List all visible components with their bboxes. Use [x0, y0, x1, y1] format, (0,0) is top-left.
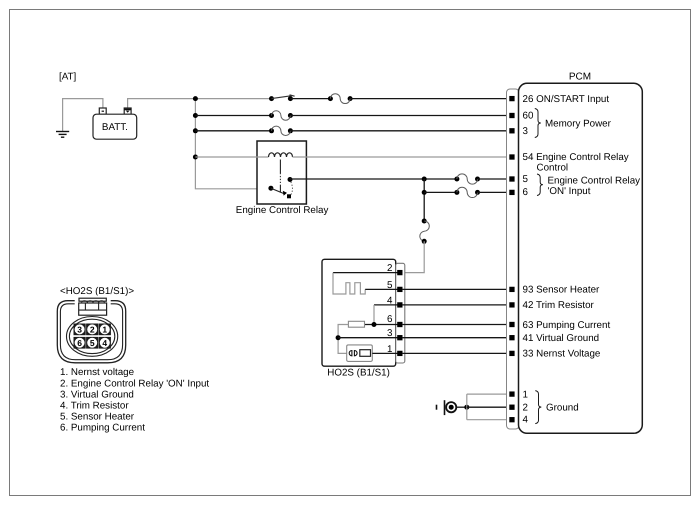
svg-text:93 Sensor Heater: 93 Sensor Heater: [523, 285, 601, 296]
switch (ignition) row1: [269, 95, 295, 101]
wire: chassis ground to node F: [456, 406, 467, 408]
PCM module box: [519, 83, 643, 433]
node (vertical fuse top): [422, 219, 427, 224]
svg-text:Control: Control: [537, 162, 569, 173]
brace Memory Power: [535, 109, 541, 138]
battery BATT.: [93, 108, 137, 139]
svg-text:6. Pumping Current: 6. Pumping Current: [60, 423, 145, 434]
PCM pin labels: [523, 94, 641, 426]
brace Ground: [535, 391, 541, 424]
svg-text:[AT]: [AT]: [59, 72, 77, 83]
fuse vertical (HO2S supply): [420, 221, 429, 244]
node (bus row2): [193, 113, 198, 118]
svg-text:'ON' Input: 'ON' Input: [548, 186, 591, 197]
wire: HO2S pin 6 to PCM pin 63: [402, 324, 510, 326]
relay: Engine Control Relay box: [257, 141, 306, 204]
PCM pin squares: [509, 96, 514, 422]
PCM connector strip: [507, 89, 520, 429]
wire: fuse row6 to PCM pin 6: [478, 191, 511, 193]
svg-text:6: 6: [387, 314, 393, 325]
fuse row2: [269, 111, 293, 120]
wire: resistor left leg down to cell: [338, 325, 348, 354]
svg-text:4: 4: [523, 415, 529, 426]
node A (bus row1): [193, 96, 198, 101]
fuse row6: [454, 187, 480, 197]
wire: node B down to row6 and vertical fuse: [423, 179, 425, 221]
svg-text:4: 4: [387, 295, 393, 306]
svg-text:4. Trim Resistor: 4. Trim Resistor: [60, 400, 129, 411]
wire: heater to HO2S pin 5: [365, 288, 398, 290]
svg-text:4: 4: [102, 338, 107, 348]
svg-text:63 Pumping Current: 63 Pumping Current: [523, 320, 611, 331]
svg-text:26 ON/START Input: 26 ON/START Input: [523, 94, 610, 105]
svg-text:1: 1: [102, 325, 107, 335]
HO2S pin numbers: [387, 263, 393, 355]
connector HO2S (B1/S1) box: [322, 259, 396, 366]
node (bus row4 coil feed): [193, 155, 198, 160]
wire: row2 bus to fuse: [195, 115, 271, 117]
wire: row4 bus into relay coil: [195, 156, 268, 158]
svg-text:Ground: Ground: [546, 402, 579, 413]
label Engine Control Relay: [236, 205, 329, 216]
svg-text:2: 2: [90, 325, 95, 335]
svg-text:BATT.: BATT.: [102, 122, 128, 133]
svg-text:5: 5: [523, 174, 529, 185]
wire: bus vertical line down to relay common: [195, 99, 270, 189]
wire: row6 junction to fuse: [424, 191, 457, 193]
svg-text:60: 60: [523, 111, 534, 122]
brace Engine Control Relay ON Input: [537, 174, 543, 196]
HO2S connector pin strip: [396, 263, 405, 363]
svg-text:Engine Control Relay: Engine Control Relay: [236, 205, 329, 216]
nernst cell: [347, 345, 373, 362]
label <HO2S (B1/S1)>: [60, 286, 134, 297]
wire: ground to battery negative terminal: [63, 99, 103, 132]
wire: ground to PCM pin 4: [467, 419, 510, 421]
wire: HO2S pin 4 to PCM pin 42: [402, 304, 510, 306]
label [AT]: [59, 72, 77, 83]
svg-text:1. Nernst voltage: 1. Nernst voltage: [60, 367, 135, 378]
wire: HO2S pin 5 to PCM pin 93: [402, 288, 510, 290]
wire: HO2S pin 4 internal: [374, 304, 399, 306]
svg-text:2. Engine Control Relay 'ON' I: 2. Engine Control Relay 'ON' Input: [60, 378, 209, 389]
relay actuating dotted link: [279, 160, 281, 193]
wire: ground branch vertical: [466, 394, 468, 420]
wire: HO2S pin 1 to PCM pin 33: [402, 352, 510, 354]
relay switch contacts: [268, 177, 292, 198]
fuse row5: [454, 174, 480, 184]
svg-text:Memory Power: Memory Power: [545, 118, 612, 129]
svg-text:6: 6: [523, 187, 529, 198]
svg-text:3: 3: [387, 328, 393, 339]
label HO2S (B1/S1): [327, 368, 390, 379]
wire: HO2S pin 6 row: [365, 324, 399, 326]
relay coil: [269, 153, 293, 157]
node E (virtual ground junction): [336, 335, 341, 340]
svg-text:HO2S (B1/S1): HO2S (B1/S1): [327, 368, 390, 379]
wire: row1 bus to ignition switch (gray feed): [195, 98, 271, 100]
pictogram pin squares with numbers: [74, 324, 111, 349]
HO2S connector pictogram: [57, 296, 125, 363]
svg-text:Engine Control Relay: Engine Control Relay: [548, 175, 641, 186]
svg-text:5: 5: [90, 338, 95, 348]
wire: fuse row3 to PCM pin 3: [290, 130, 510, 132]
node D (trim resistor junction): [372, 322, 377, 327]
HO2S pin squares: [397, 270, 402, 356]
wire: cell to HO2S pin 1: [372, 352, 398, 354]
svg-text:2: 2: [523, 402, 528, 413]
svg-text:5: 5: [387, 280, 393, 291]
svg-text:3: 3: [523, 126, 529, 137]
fuse row3: [269, 126, 293, 135]
wire: ground to PCM pin 1: [467, 393, 510, 395]
wire: relay output to junction node B: [290, 178, 457, 180]
svg-text:2: 2: [387, 263, 392, 274]
legend text: [60, 367, 209, 433]
wire: fuse row1 to PCM pin 26: [350, 98, 510, 100]
wire: fuse row2 to PCM pin 60: [290, 115, 510, 117]
wire: relay coil to PCM pin 54: [293, 156, 511, 158]
wire: switch to fuse row1: [290, 98, 330, 100]
svg-text:<HO2S (B1/S1)>: <HO2S (B1/S1)>: [60, 286, 134, 297]
chassis ground: [437, 400, 457, 415]
heater element (pins 2-5): [333, 273, 365, 294]
wire: fuse row5 to PCM pin 5: [478, 178, 511, 180]
wire: HO2S pin 3 row: [338, 337, 398, 339]
fuse row1: [328, 94, 353, 104]
wire: vertical fuse to HO2S pin 2: [402, 241, 424, 272]
svg-text:42 Trim Resistor: 42 Trim Resistor: [523, 300, 595, 311]
svg-text:3. Virtual Ground: 3. Virtual Ground: [60, 389, 134, 400]
node B (row5 junction): [422, 177, 427, 182]
svg-text:1: 1: [523, 389, 528, 400]
svg-text:PCM: PCM: [569, 72, 591, 83]
svg-text:33 Nernst Voltage: 33 Nernst Voltage: [523, 349, 601, 360]
wire: ground to PCM pin 2: [467, 406, 510, 408]
wire: battery positive terminal to bus node A: [128, 99, 196, 108]
svg-text:1: 1: [387, 344, 392, 355]
ground (battery negative): [56, 132, 69, 138]
node (bus row3): [193, 128, 198, 133]
svg-text:3: 3: [77, 325, 82, 335]
node C (row6 junction): [422, 190, 427, 195]
svg-text:6: 6: [77, 338, 82, 348]
wire: HO2S pin 2 internal: [333, 272, 399, 274]
svg-text:5. Sensor Heater: 5. Sensor Heater: [60, 411, 135, 422]
wire: HO2S pin 3 to PCM pin 41: [402, 337, 510, 339]
wire: row3 bus to fuse: [195, 130, 271, 132]
trim resistor: [348, 321, 364, 327]
svg-text:41 Virtual Ground: 41 Virtual Ground: [523, 333, 600, 344]
wire: pin 4 branch down: [373, 305, 375, 325]
label PCM: [569, 72, 591, 83]
node F (ground junction): [464, 405, 469, 410]
